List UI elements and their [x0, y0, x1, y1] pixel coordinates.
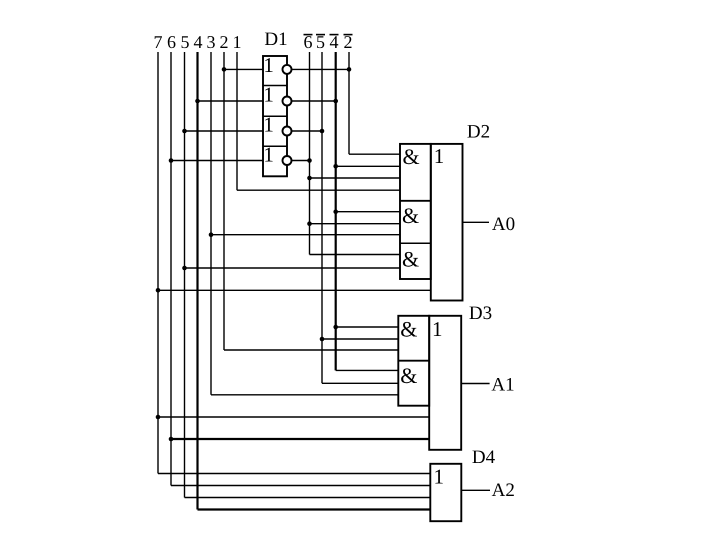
junction node 5 to U3: [182, 129, 187, 134]
wire NOT-4 vertical: [335, 52, 337, 370]
wire NOT-5 vertical: [321, 52, 323, 383]
inverter U3 output wire to NOT-5: [292, 130, 323, 132]
wire input 5 to D4 input: [185, 497, 431, 499]
svg-text:5: 5: [181, 32, 190, 52]
wire output A1: [461, 383, 489, 385]
junction U4 out to NOT-6: [307, 158, 312, 163]
wire input 3 tap to D2 gate2 input: [211, 234, 400, 236]
junction U1 out to NOT-2: [347, 67, 352, 72]
inverter block D1 divider 2: [263, 115, 287, 117]
junction NOT-4 D3 gate1: [333, 325, 338, 330]
junction NOT-5 D3 gate1: [320, 337, 325, 342]
junction node 4 to U2: [195, 99, 200, 104]
wire NOT-6 tap to D2 gate1 input: [310, 177, 401, 179]
inverter U3 output bubble: [283, 127, 292, 136]
wire NOT-2 to D2 gate1 input: [349, 153, 400, 155]
svg-text:&: &: [400, 363, 417, 388]
svg-text:1: 1: [263, 143, 274, 167]
AND-OR block D2 OR section outline: [431, 144, 463, 301]
svg-text:&: &: [400, 317, 417, 342]
svg-text:&: &: [402, 247, 419, 272]
junction NOT-6 D2 gate2: [307, 221, 312, 226]
inverter block D1 divider 1: [263, 85, 287, 87]
wire input 3 to D3 gate2 input: [211, 394, 398, 396]
wire input 3 vertical: [210, 52, 212, 395]
junction node 3 D2 gate2: [209, 232, 214, 237]
wire output A2: [461, 489, 490, 491]
wire NOT-4 tap to D2 gate1 input: [336, 165, 400, 167]
svg-text:1: 1: [233, 32, 242, 52]
svg-text:6: 6: [167, 32, 176, 52]
wire input 6 tap to D3 OR input: [171, 438, 429, 440]
inverter U2 input wire from node 4: [198, 100, 264, 102]
svg-text:4: 4: [194, 32, 203, 52]
inverter block D1 divider 3: [263, 145, 287, 147]
svg-text:D3: D3: [469, 303, 492, 324]
junction U3 out to NOT-5: [320, 129, 325, 134]
svg-text:1: 1: [432, 317, 443, 341]
wire NOT-4 tap to D2 gate2 input: [336, 211, 400, 213]
wire input 2 to D3 gate1 input: [224, 349, 398, 351]
svg-text:&: &: [402, 203, 419, 228]
wire NOT-4 to D3 gate2 input: [336, 369, 399, 371]
wire NOT-6 vertical: [309, 52, 311, 255]
wire NOT-5 to D3 gate2 input: [322, 382, 398, 384]
wire input 7 tap to D3 OR input: [158, 416, 429, 418]
junction NOT-4 D2 gate1: [333, 164, 338, 169]
junction node 7 D2 OR: [156, 288, 161, 293]
svg-text:D2: D2: [467, 122, 490, 143]
block D3 gate divider: [398, 360, 429, 362]
svg-text:3: 3: [207, 32, 216, 52]
junction U2 out to NOT-4: [333, 99, 338, 104]
svg-text:A2: A2: [492, 480, 515, 501]
inverter U1 output wire to NOT-2: [292, 68, 350, 70]
AND-OR block D2 AND section outline: [400, 144, 431, 279]
svg-text:D4: D4: [472, 447, 496, 468]
inverter U4 output wire to NOT-6: [292, 160, 310, 162]
wire output A0: [463, 221, 490, 223]
wire input 7 vertical: [157, 52, 159, 474]
junction node 5 D2 gate3: [182, 266, 187, 271]
wire input 4 vertical: [196, 52, 198, 510]
wire input 1 to D2 gate1 input: [237, 189, 400, 191]
inverter U1 input wire from node 2: [224, 68, 263, 70]
junction NOT-6 D2 gate1: [307, 176, 312, 181]
wire input 5 vertical: [184, 52, 186, 498]
inverter U3 input wire from node 5: [185, 130, 264, 132]
inverter U4 output bubble: [283, 156, 292, 165]
wire input 4 to D4 input: [198, 508, 431, 510]
inverter block D1 outline: [263, 56, 287, 176]
svg-text:1: 1: [263, 83, 274, 107]
inverter U4 input wire from node 6: [171, 160, 263, 162]
svg-text:2: 2: [220, 32, 229, 52]
node NOT-5 label: [316, 32, 325, 52]
AND-OR block D3 AND section outline: [398, 316, 429, 406]
inverter U2 output bubble: [283, 97, 292, 106]
wire input 7 tap to D2 OR input: [158, 289, 431, 291]
svg-text:A1: A1: [491, 374, 514, 395]
inverter U2 output wire to NOT-4: [292, 100, 336, 102]
AND-OR block D3 OR section outline: [429, 316, 461, 450]
svg-text:D1: D1: [264, 29, 287, 50]
junction node 2 to U1: [222, 67, 227, 72]
node NOT-6 label: [304, 32, 313, 52]
wire NOT-5 tap to D3 gate1 input: [322, 338, 398, 340]
svg-text:7: 7: [154, 32, 163, 52]
wire input 5 tap to D2 gate3 input: [185, 267, 401, 269]
wire NOT-6 to D2 gate3 input: [310, 254, 401, 256]
svg-text:A0: A0: [492, 214, 515, 235]
block D2 gate divider 1: [400, 200, 431, 202]
junction NOT-4 D2 gate2: [333, 209, 338, 214]
block D2 gate divider 2: [400, 242, 431, 244]
junction node 6 D3 OR: [169, 437, 174, 442]
svg-text:&: &: [402, 144, 419, 169]
svg-text:1: 1: [434, 465, 445, 489]
svg-text:1: 1: [263, 113, 274, 137]
inverter U1 output bubble: [283, 65, 292, 74]
wire input 6 to D4 input: [171, 485, 430, 487]
junction node 7 D3 OR: [156, 415, 161, 420]
node NOT-4 label: [330, 32, 339, 52]
wire input 6 vertical: [170, 52, 172, 486]
wire input 1 vertical: [236, 52, 238, 190]
node NOT-2 label: [344, 32, 353, 52]
svg-text:1: 1: [263, 53, 274, 77]
wire NOT-6 tap to D2 gate2 input: [310, 223, 401, 225]
svg-text:1: 1: [434, 144, 445, 168]
wire input 2 vertical: [223, 52, 225, 350]
OR block D4 outline: [430, 464, 461, 521]
wire input 7 to D4 input: [158, 473, 430, 475]
junction node 6 to U4: [169, 158, 174, 163]
wire NOT-4 tap to D3 gate1 input: [336, 326, 399, 328]
wire NOT-2 vertical: [348, 52, 350, 154]
